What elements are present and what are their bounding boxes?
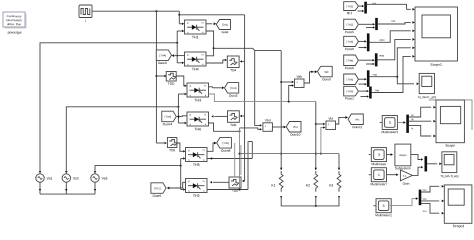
svg-text:Iin4: Iin4 — [391, 20, 396, 23]
wire TH1 k join — [206, 31, 215, 56]
svg-text:[TH4]: [TH4] — [347, 58, 354, 62]
multimeter Multimeter — [369, 148, 388, 167]
voltage measurement Vbd — [263, 118, 273, 131]
block TOK — [228, 111, 240, 127]
svg-text:K1: K1 — [271, 183, 275, 187]
wire gate branch left column — [155, 11, 166, 144]
wire DC plus down to bus — [280, 51, 282, 170]
block TD6 — [229, 177, 241, 193]
svg-text:Outm4: Outm4 — [163, 122, 173, 126]
svg-text:1: 1 — [378, 173, 380, 177]
svg-text:TH1: TH1 — [192, 35, 199, 39]
svg-text:TDD: TDD — [168, 82, 175, 86]
svg-text:[TH3]: [TH3] — [230, 86, 237, 90]
svg-text:Outv10: Outv10 — [290, 133, 301, 137]
thyristor TH2 — [186, 179, 208, 198]
wire tag3 to mux — [358, 40, 366, 42]
from tag row3 [TH3] — [344, 36, 359, 51]
svg-text:Vs3: Vs3 — [102, 176, 108, 180]
wire meas stub a — [234, 143, 236, 178]
resistor K2 — [306, 171, 318, 198]
wire demux3 out3 — [421, 203, 444, 214]
wire TH1 m to tag — [206, 22, 216, 25]
load bus top — [240, 153, 340, 155]
wire stub to mux1 — [358, 10, 365, 12]
wire TDD to TH3 g — [176, 76, 187, 87]
svg-text:Multimeter2: Multimeter2 — [381, 130, 398, 134]
svg-text:Gate5: Gate5 — [153, 194, 162, 198]
svg-text:K3: K3 — [329, 183, 333, 187]
mux bar workspace — [425, 156, 428, 171]
label Iin4 — [391, 20, 396, 23]
goto tag Vbl — [348, 114, 363, 129]
wire TD6 to TH2 — [210, 181, 229, 183]
wire subsystem to mux — [411, 155, 423, 161]
load bus bottom — [281, 197, 339, 207]
svg-text:m: m — [203, 150, 205, 152]
scope Scope — [436, 100, 464, 148]
wire multimeter2 to demux — [397, 121, 405, 124]
wire Vab plus in — [281, 81, 294, 83]
svg-text:THd: THd — [374, 89, 379, 92]
goto tag TH2 Gate5 — [151, 183, 166, 198]
wire mux1 to scope — [367, 4, 415, 10]
wire mux4 to scope — [378, 38, 415, 60]
subsystem block — [395, 144, 411, 170]
wire TD5 to TH5 g — [177, 143, 186, 153]
svg-text:powergui: powergui — [8, 30, 22, 34]
svg-text:[TH5]: [TH5] — [222, 141, 229, 145]
mux bar row2 — [375, 18, 378, 30]
svg-text:To_WorT_a01: To_WorT_a01 — [418, 95, 437, 99]
svg-text:Vs2: Vs2 — [73, 176, 79, 180]
wire demux3 out2 — [421, 199, 444, 202]
block TD4 — [227, 56, 239, 72]
wire TH2 m to tag — [167, 182, 186, 189]
label IPd8 — [379, 55, 385, 58]
wire Vbd out to tag — [272, 126, 286, 129]
wire tag6 to mux — [359, 90, 369, 92]
mux bar row4 — [375, 53, 378, 66]
wire stub to mux2 — [366, 26, 375, 28]
svg-text:Scope3: Scope3 — [453, 224, 465, 228]
svg-text:-: - — [301, 84, 302, 88]
svg-text:Paco6: Paco6 — [345, 66, 354, 70]
svg-text:TH2: TH2 — [193, 194, 200, 198]
wire meas vertical 2 — [248, 142, 252, 190]
wire TH4 m to tag — [172, 54, 185, 57]
svg-text:m: m — [204, 85, 206, 87]
svg-text:Scope1: Scope1 — [430, 63, 442, 67]
block TD5 — [167, 138, 177, 153]
svg-text:Paco5: Paco5 — [345, 30, 354, 34]
wire demux out2 — [409, 119, 436, 122]
mux bar row6 — [369, 87, 372, 99]
svg-text:[TH3]: [TH3] — [347, 40, 354, 44]
svg-text:[TH4]: [TH4] — [160, 53, 167, 57]
svg-text:[TH2]: [TH2] — [154, 186, 161, 190]
wire stub to mux5 — [359, 83, 367, 85]
from tag row4 [TH4] — [344, 55, 359, 70]
svg-text:-: - — [270, 128, 271, 132]
wire Vbl minus in — [320, 126, 326, 154]
svg-text:Subsystem: Subsystem — [395, 166, 411, 170]
svg-text:Vab: Vab — [324, 70, 329, 74]
wire tag2 to mux — [359, 23, 375, 25]
svg-text:3: 3 — [383, 204, 385, 208]
wire mux5 to scope and workspace — [370, 46, 420, 85]
gain block — [400, 170, 412, 186]
wire mid bus to K2 — [315, 102, 317, 170]
wire tag1 to mux — [358, 5, 364, 7]
from tag row2 [TH2] — [344, 19, 359, 34]
wire stub to mux3 — [359, 46, 367, 48]
wire anode vertical B — [178, 93, 186, 124]
svg-text:[TH1]: [TH1] — [222, 23, 229, 27]
svg-text:[TH2]: [TH2] — [347, 23, 354, 27]
label IPd4 — [379, 39, 385, 42]
wire Vbl out to tag — [336, 116, 349, 124]
wire demux out3 — [409, 125, 436, 137]
goto tag Vbd — [286, 122, 301, 137]
svg-text:m: m — [202, 54, 204, 56]
svg-text:Vab: Vab — [297, 75, 303, 79]
svg-text:m: m — [202, 22, 204, 24]
svg-text:3: 3 — [389, 121, 391, 125]
svg-text:Gate3: Gate3 — [158, 61, 167, 65]
label THd6 — [374, 89, 379, 92]
goto tag TH1 Gate — [216, 20, 230, 35]
goto tag TH5 — [217, 138, 232, 153]
wire to Vbd plus — [255, 51, 262, 127]
svg-text:ubber, Ron: ubber, Ron — [7, 22, 22, 26]
wire TH6 k — [209, 123, 241, 132]
svg-text:[TH5]: [TH5] — [347, 89, 354, 93]
svg-text:+: + — [296, 80, 298, 84]
svg-text:TD5: TD5 — [169, 148, 175, 152]
mux bar row3 — [367, 33, 370, 51]
goto tag TH3 Gate4 — [225, 83, 239, 98]
wire phase C — [94, 165, 182, 174]
wire mux to workspace scope — [427, 162, 442, 165]
wire phase B — [65, 106, 179, 174]
svg-text:Outv3: Outv3 — [229, 94, 238, 98]
scope Scope3 — [444, 185, 472, 228]
svg-text:IPd8: IPd8 — [379, 55, 385, 58]
wire TH3 m to tag — [209, 86, 225, 89]
wire mux2 to scope — [378, 21, 415, 24]
wire anode vertical A — [176, 30, 184, 64]
wire TH3 k to mid bus — [209, 94, 316, 103]
thyristor TH1 — [185, 20, 207, 39]
svg-text:m: m — [203, 181, 205, 183]
thyristor TH4 — [185, 52, 207, 71]
goto tag TH4 Gate3 — [156, 50, 171, 65]
wire gate to TH1 g — [178, 11, 184, 25]
svg-text:[TH6]: [TH6] — [347, 77, 354, 81]
wire stub to mux6 — [361, 95, 369, 97]
svg-text:-: - — [333, 126, 334, 130]
goto tag Vab — [318, 66, 333, 81]
scope To_Workspace1 — [418, 73, 437, 99]
svg-text:Vbn: Vbn — [423, 199, 428, 201]
wire DC plus horizontal — [214, 48, 282, 50]
wire mux6 to scope — [372, 55, 415, 92]
svg-text:Vbl: Vbl — [328, 117, 333, 121]
wire stub to mux4 — [366, 63, 375, 65]
powergui block — [3, 12, 27, 35]
svg-text:Outv11: Outv11 — [352, 125, 362, 129]
from tag row6 [TH5] — [344, 86, 359, 100]
AC source Vs2 — [62, 170, 79, 194]
svg-text:Paco1: Paco1 — [345, 96, 354, 100]
block TDD — [166, 72, 176, 86]
wire multimeter1 to demux — [390, 197, 418, 205]
wire demux3 out1 — [421, 185, 444, 192]
wire TH4 k to TD4 — [206, 59, 227, 63]
svg-text:K2: K2 — [306, 183, 310, 187]
wire anode vertical C — [181, 157, 186, 190]
resistor K1 — [271, 171, 283, 198]
wire tag4 to mux — [359, 59, 375, 61]
svg-text:TOK: TOK — [230, 123, 237, 127]
wire TH5 k — [207, 158, 252, 160]
wire meas stub b — [240, 145, 242, 175]
wire pulse to gate node — [92, 10, 179, 12]
svg-text:Scope: Scope — [445, 144, 455, 148]
svg-text:Vs1: Vs1 — [47, 176, 53, 180]
demux bar scope3 — [419, 190, 422, 206]
svg-text:+: + — [328, 122, 330, 126]
AC source Vs1 — [36, 170, 53, 194]
svg-text:TH3: TH3 — [194, 98, 201, 102]
wire meas vertical 1 — [251, 142, 253, 159]
svg-text:Outv9: Outv9 — [322, 77, 331, 81]
AC source Vs3 — [91, 170, 108, 194]
thyristor TH5 — [186, 148, 208, 167]
svg-text:Gain: Gain — [403, 182, 410, 186]
wire tag5 to mux — [358, 78, 366, 80]
svg-text:TH6: TH6 — [194, 127, 201, 131]
from tag row5 [TH6] — [344, 74, 359, 89]
wire TH6 m to tag — [177, 115, 187, 118]
wire K3 feed — [338, 154, 340, 170]
wire TH5 m to tag — [207, 142, 217, 152]
resistor K3 — [329, 171, 341, 198]
multimeter Multimeter2 — [380, 116, 399, 135]
pulse generator — [79, 5, 92, 23]
svg-text:Paco0: Paco0 — [345, 47, 354, 51]
svg-text:Multimeter: Multimeter — [371, 162, 387, 166]
svg-text:Multimeter?: Multimeter? — [371, 182, 388, 186]
wire TOK to TH6 — [211, 115, 227, 117]
svg-text:Ith1: Ith1 — [347, 11, 353, 15]
wire gate distribution top — [179, 14, 244, 16]
wire Vab minus in — [289, 84, 294, 101]
wire demux out1 — [409, 106, 436, 117]
voltage measurement Vbl — [326, 117, 336, 130]
thyristor TH6 — [187, 112, 209, 131]
wire neutral bus — [40, 193, 95, 195]
wire gate distribution vertical — [240, 15, 245, 182]
label Iink — [372, 2, 377, 5]
wire gain to mux — [412, 166, 423, 175]
wire right margin — [429, 100, 472, 130]
wire phase A — [39, 42, 179, 174]
svg-text:Multimeter1: Multimeter1 — [375, 213, 392, 217]
wire DC minus vertical — [239, 128, 241, 191]
svg-text:Vbd: Vbd — [265, 118, 271, 122]
wire Vbl plus in — [315, 123, 326, 125]
goto tag TH6 — [162, 111, 177, 126]
svg-text:3: 3 — [378, 153, 380, 157]
svg-text:Tb_MA-TL400: Tb_MA-TL400 — [440, 174, 459, 178]
demux bar scope — [406, 115, 409, 133]
svg-text:TH4: TH4 — [192, 67, 199, 71]
multimeter Multimeter1 — [373, 199, 392, 218]
scope Scope1 — [415, 7, 458, 67]
svg-text:Gate: Gate — [222, 30, 229, 34]
mux bar row5 — [367, 70, 370, 87]
thyristor TH3 — [187, 83, 209, 102]
svg-text:minjun: minjun — [399, 154, 407, 157]
svg-text:Outm8: Outm8 — [221, 149, 231, 153]
svg-text:IPd4: IPd4 — [379, 39, 385, 42]
svg-text:TD4: TD4 — [230, 68, 236, 72]
wire multimeter to subsystem — [387, 153, 394, 156]
wire multimeter3 to gain — [387, 173, 399, 176]
svg-text:[TH1]: [TH1] — [347, 4, 354, 8]
svg-text:m: m — [204, 114, 206, 116]
wire mux3 to scope — [370, 29, 415, 42]
from tag row1 [TH1] — [344, 2, 359, 15]
svg-text:TH5: TH5 — [193, 163, 200, 167]
svg-text:0.1: 0.1 — [403, 174, 407, 178]
svg-text:Vbd: Vbd — [293, 125, 298, 129]
mux bar row1 — [364, 2, 367, 14]
wire Vab out to tag — [305, 70, 318, 83]
svg-text:THd: THd — [372, 74, 377, 77]
scope To_workspace2 — [440, 152, 459, 178]
svg-text:+: + — [265, 124, 267, 128]
svg-text:Vbc: Vbc — [355, 117, 360, 121]
multimeter Multimeter3 — [369, 168, 388, 187]
label THd5 — [372, 74, 377, 77]
wire TH2 k — [207, 189, 248, 191]
svg-text:[TH6]: [TH6] — [165, 115, 172, 119]
wire to Vbd minus — [240, 128, 263, 131]
voltage measurement Vab — [295, 75, 305, 88]
